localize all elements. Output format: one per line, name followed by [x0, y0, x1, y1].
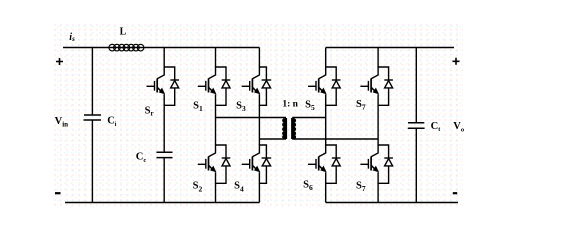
plus terminal input	[56, 58, 63, 65]
wire leg3 midsection	[258, 105, 260, 145]
inductor L coil	[109, 44, 144, 51]
svg-text:is: is	[69, 32, 75, 43]
wire leg5 midsection	[377, 105, 379, 145]
minus terminal output	[453, 192, 457, 194]
svg-text:1: n: 1: n	[282, 100, 298, 110]
IGBT switch Sr with antiparallel diode	[147, 66, 180, 105]
wire leg1 emitter to clamp cap	[163, 105, 165, 152]
svg-text:L: L	[120, 27, 127, 38]
IGBT switch S4 with antiparallel diode	[242, 144, 271, 183]
IGBT switch S2 with antiparallel diode	[198, 144, 231, 183]
minus terminal input	[55, 192, 61, 194]
wire leg4 midsection	[325, 105, 327, 145]
wire secondary top (transformer to S5/S6 midpoint)	[292, 117, 326, 119]
wire leg3 collector	[258, 48, 260, 68]
transformer T1 primary winding	[282, 118, 287, 139]
wire leg4 emitter to bottom rail	[325, 183, 327, 202]
wire leg3 emitter to bottom rail	[258, 183, 260, 202]
svg-text:Vo: Vo	[453, 121, 464, 133]
IGBT switch S7 with antiparallel diode	[360, 66, 393, 105]
svg-text:S1: S1	[193, 101, 203, 113]
wire primary bottom (S3/S4 midpoint to transformer)	[259, 138, 286, 140]
svg-text:Cc: Cc	[136, 152, 147, 164]
svg-text:Sr: Sr	[145, 105, 154, 117]
wire leg2 emitter to bottom rail	[215, 183, 217, 202]
IGBT switch S3 with antiparallel diode	[242, 66, 271, 105]
plus terminal output	[453, 58, 460, 65]
IGBT switch S5 with antiparallel diode	[308, 66, 341, 105]
wire leg1 collector	[163, 48, 165, 68]
wire leg2 midsection	[215, 105, 217, 145]
capacitor Cc (clamp)	[157, 152, 173, 157]
wire output rail lower	[415, 128, 417, 202]
IGBT switch S8 with antiparallel diode	[360, 144, 393, 183]
wire top rail right bridge	[326, 47, 454, 49]
svg-text:S7: S7	[356, 99, 366, 111]
figure background speckle texture	[54, 24, 463, 207]
wire output rail upper	[415, 48, 417, 123]
svg-text:Vin: Vin	[55, 116, 69, 128]
wire secondary bottom (transformer to S7/S8 midpoint)	[292, 138, 378, 140]
IGBT switch S1 with antiparallel diode	[198, 66, 231, 105]
transformer T1 secondary winding	[292, 118, 297, 139]
wire input rail upper	[91, 48, 93, 115]
wire leg2 collector	[215, 48, 217, 68]
wire leg4 collector	[325, 48, 327, 68]
svg-text:Ct: Ct	[431, 121, 441, 133]
svg-text:S5: S5	[305, 100, 315, 112]
capacitor Co	[408, 123, 425, 128]
wire top rail left bridge	[63, 47, 259, 49]
wire bottom rail right bridge	[326, 202, 458, 204]
wire leg5 emitter to bottom rail	[377, 183, 379, 202]
IGBT switch S6 with antiparallel diode	[308, 144, 341, 183]
svg-text:S2: S2	[193, 181, 203, 194]
wire primary top (S1/S2 midpoint to transformer)	[216, 117, 287, 119]
svg-text:S4: S4	[234, 181, 244, 194]
wire clamp cap to bottom rail	[163, 158, 165, 203]
svg-text:S7: S7	[356, 181, 366, 193]
svg-text:S6: S6	[303, 180, 313, 192]
wire leg5 collector	[377, 48, 379, 68]
wire input rail lower	[91, 120, 93, 203]
wire bottom rail left bridge	[65, 202, 259, 204]
capacitor Ci	[84, 115, 102, 120]
svg-text:Ci: Ci	[107, 116, 117, 128]
svg-text:S3: S3	[236, 101, 246, 113]
